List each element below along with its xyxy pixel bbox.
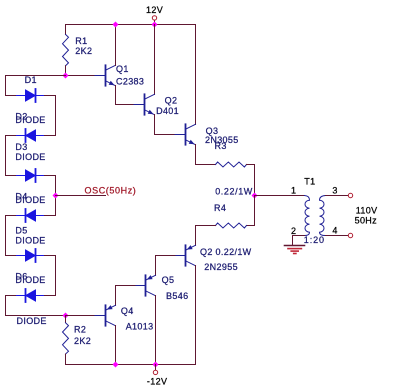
wire D3 to D4 xyxy=(45,176,56,216)
transistor Q2 2N2955 xyxy=(175,245,196,266)
junction rail/Q4 collector xyxy=(113,362,119,368)
svg-text:Q2 0.22/1W: Q2 0.22/1W xyxy=(200,247,252,257)
wire +12V bus xyxy=(66,24,196,26)
junction R3/R4/T1 xyxy=(252,193,258,199)
wire Q5 emitter to Q2 base xyxy=(156,256,176,276)
svg-text:2N2955: 2N2955 xyxy=(204,262,238,272)
svg-text:2: 2 xyxy=(291,226,296,236)
wire T1 pin4 xyxy=(326,235,349,237)
svg-text:D3: D3 xyxy=(15,142,27,152)
wire Q4 emitter to Q5 base xyxy=(116,285,136,287)
wire D6 to Q4 base net xyxy=(6,296,66,316)
svg-text:DIODE: DIODE xyxy=(17,316,47,326)
resistor R2 xyxy=(63,323,69,354)
wire D5 left stub xyxy=(6,255,16,257)
wire Q5 collector down xyxy=(155,296,157,365)
svg-text:1:20: 1:20 xyxy=(304,235,325,245)
wire D5 to D6 xyxy=(45,256,56,296)
wire Q1 collector xyxy=(115,25,117,66)
svg-text:4: 4 xyxy=(332,226,337,236)
wire D4 to D5 xyxy=(6,216,16,256)
wire Q4 emitter up xyxy=(115,286,117,306)
diode D2 xyxy=(16,129,45,142)
wire R2 bottom lead xyxy=(65,354,67,364)
svg-text:Q4: Q4 xyxy=(121,306,134,316)
wire junction to R4 xyxy=(247,196,255,226)
svg-text:A1013: A1013 xyxy=(126,321,154,331)
svg-text:D1: D1 xyxy=(25,75,37,85)
wire R4 to Q2(2N2955) emitter xyxy=(196,226,216,246)
svg-text:B546: B546 xyxy=(166,291,188,301)
svg-text:OSC(50Hz): OSC(50Hz) xyxy=(85,186,137,196)
junction rail/-12V xyxy=(153,362,159,368)
wire R3 to junction xyxy=(247,165,255,196)
junction bus/12V/Q2 collector xyxy=(152,22,158,28)
svg-text:110V: 110V xyxy=(356,206,378,216)
transistor Q4 xyxy=(95,305,116,326)
wire Q2 collector xyxy=(154,25,156,95)
wire to diode chain top xyxy=(6,76,66,96)
svg-text:D5: D5 xyxy=(15,226,27,236)
svg-text:0.22/1W: 0.22/1W xyxy=(215,187,253,197)
resistor R4 xyxy=(216,223,247,228)
ground xyxy=(285,246,305,254)
svg-text:R4: R4 xyxy=(214,203,226,213)
wire OSC input xyxy=(56,195,106,197)
svg-text:50Hz: 50Hz xyxy=(355,215,378,225)
diode D3 xyxy=(16,169,45,182)
wire D1 anode stub xyxy=(6,95,16,97)
transistor Q5 xyxy=(135,275,156,296)
wire R1 to Q1 base xyxy=(66,75,96,77)
junction R1/Q1/diodes xyxy=(63,73,69,79)
svg-text:C2383: C2383 xyxy=(116,77,144,87)
resistor R3 xyxy=(216,162,247,167)
wire R2 top lead xyxy=(65,316,67,323)
svg-text:D4: D4 xyxy=(15,192,27,202)
svg-text:3: 3 xyxy=(332,185,337,195)
wire -12V stub xyxy=(155,365,157,371)
power -12V terminal xyxy=(153,370,157,374)
svg-text:R1: R1 xyxy=(75,36,87,46)
wire Q1 emitter to Q2 base xyxy=(116,86,135,105)
wire T1 pin1 xyxy=(255,195,305,197)
diode D1 xyxy=(16,89,45,102)
diode D4 xyxy=(16,209,45,222)
wire 12V stub xyxy=(154,21,156,25)
wire Q2(2N2955) collector down xyxy=(195,266,197,365)
svg-text:2K2: 2K2 xyxy=(75,46,92,56)
svg-text:D6: D6 xyxy=(15,272,27,282)
transistor Q1 xyxy=(95,65,116,85)
transistor Q2 xyxy=(134,94,155,114)
svg-text:2K2: 2K2 xyxy=(74,336,91,346)
wire D2 right stub xyxy=(45,135,56,137)
power 12V terminal xyxy=(152,16,156,20)
diode D5 xyxy=(16,249,45,262)
svg-text:DIODE: DIODE xyxy=(15,152,45,162)
svg-text:D401: D401 xyxy=(156,106,179,116)
wire R1 top lead xyxy=(65,25,67,35)
resistor R1 xyxy=(63,34,69,65)
terminal output pin4 xyxy=(348,233,352,237)
wire D1 to D2 xyxy=(45,96,56,136)
svg-text:R2: R2 xyxy=(74,325,86,335)
svg-text:1: 1 xyxy=(291,186,296,196)
diode D6 xyxy=(16,289,45,302)
wire D2 to D3 xyxy=(6,136,16,176)
junction OSC tap xyxy=(53,193,59,199)
svg-text:Q2: Q2 xyxy=(165,96,178,106)
svg-text:T1: T1 xyxy=(304,176,315,186)
transistor Q3 xyxy=(175,124,196,144)
wire -12V rail xyxy=(66,364,196,366)
transformer T1 secondary xyxy=(320,196,326,236)
svg-text:Q1: Q1 xyxy=(116,64,129,74)
wire to Q4 base xyxy=(66,315,96,317)
junction bus/Q1 collector xyxy=(113,22,119,28)
svg-text:D2: D2 xyxy=(15,112,27,122)
svg-text:Q5: Q5 xyxy=(162,275,175,285)
transformer T1 primary xyxy=(305,196,310,236)
wire T1 pin3 xyxy=(326,195,349,197)
wire Q3 collector xyxy=(195,25,197,125)
wire Q2 emitter to Q3 base xyxy=(155,115,175,135)
wire D3 left stub xyxy=(6,175,16,177)
terminal output pin3 xyxy=(348,193,352,197)
svg-text:R3: R3 xyxy=(215,141,227,151)
svg-text:DIODE: DIODE xyxy=(15,236,45,246)
svg-text:-12V: -12V xyxy=(147,377,167,387)
wire D6 right stub xyxy=(45,295,56,297)
wire Q3 emitter to R3 xyxy=(196,145,216,165)
wire Q4 collector down xyxy=(115,326,117,365)
junction diodes/R2/Q4 xyxy=(63,313,69,319)
wire D4 right stub xyxy=(45,215,56,217)
svg-text:12V: 12V xyxy=(146,5,163,15)
wire T1 pin2 to ground xyxy=(293,236,305,246)
wire R1 bottom lead xyxy=(65,66,67,76)
